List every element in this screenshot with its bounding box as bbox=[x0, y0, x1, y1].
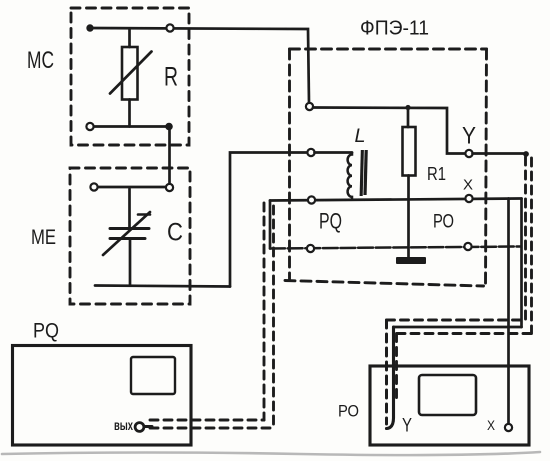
terminal wire3 left bbox=[307, 245, 314, 252]
terminal Y bbox=[465, 150, 472, 157]
svg-text:РQ: РQ bbox=[33, 320, 59, 343]
svg-text:R: R bbox=[164, 62, 178, 92]
resistor R bbox=[128, 29, 131, 48]
coax dashed horizontal upper bbox=[387, 319, 526, 322]
wire МЕ top bbox=[98, 186, 167, 189]
вых cable dashed lower bbox=[150, 427, 274, 430]
capacitor C bbox=[128, 189, 131, 228]
coax dashed horizontal lower bbox=[397, 332, 532, 335]
terminal МС bottom left bbox=[86, 123, 93, 130]
terminal on МС top wire bbox=[166, 24, 173, 31]
terminal МЕ top right bbox=[166, 184, 173, 191]
wire C to L riser bbox=[230, 153, 307, 287]
wire cable core horizontal bbox=[394, 326, 522, 329]
svg-text:ФПЭ-11: ФПЭ-11 bbox=[360, 18, 429, 40]
wire МС-МЕ connector bbox=[168, 127, 171, 184]
junction dot МС bottom right bbox=[165, 123, 173, 131]
svg-text:РQ: РQ bbox=[319, 209, 342, 234]
wire X to oscilloscope bbox=[507, 199, 510, 424]
inductor L coil bbox=[315, 151, 353, 154]
вых cable dashed riser left bbox=[263, 203, 266, 420]
РQ screen bbox=[131, 357, 175, 394]
inductor core bbox=[360, 150, 364, 196]
svg-text:Y: Y bbox=[462, 123, 476, 150]
generator РQ box bbox=[13, 346, 192, 446]
junction dot top-left bbox=[86, 24, 93, 31]
oscilloscope РО box bbox=[370, 366, 529, 445]
svg-text:РО: РО bbox=[338, 402, 359, 421]
svg-text:R1: R1 bbox=[427, 164, 446, 184]
terminal ФПЭ input top bbox=[306, 103, 313, 110]
svg-text:вых: вых bbox=[114, 418, 133, 433]
dot Y wire end bbox=[523, 151, 529, 157]
box МС bbox=[71, 8, 189, 145]
resistor R1 bbox=[407, 108, 410, 128]
wire2-wire3 link bbox=[269, 201, 272, 249]
wire cable core down with hook bbox=[387, 327, 394, 429]
coax cable dashed outer bbox=[524, 157, 527, 320]
scan smudge bottom edge bbox=[2, 452, 540, 455]
terminal wire3 right bbox=[464, 243, 471, 250]
terminal МЕ top left bbox=[90, 183, 97, 190]
connector вых bbox=[135, 423, 144, 432]
coax dashed drop left bbox=[385, 320, 388, 424]
wire МС bottom bbox=[93, 125, 169, 128]
вых cable dashed upper bbox=[150, 419, 264, 422]
ground bbox=[396, 257, 426, 264]
wire Y out bbox=[473, 152, 527, 155]
svg-text:Y: Y bbox=[402, 415, 412, 437]
coax dashed drop right bbox=[395, 334, 398, 403]
coax cable dashed inner bbox=[530, 158, 533, 334]
wire input to R1 and Y corner bbox=[313, 108, 466, 154]
svg-text:X: X bbox=[463, 177, 473, 194]
вых cable dashed riser right bbox=[272, 206, 275, 428]
wire МС top bus to ФПЭ-11 bbox=[90, 28, 309, 103]
svg-text:МЕ: МЕ bbox=[31, 226, 56, 249]
svg-text:РО: РО bbox=[433, 212, 454, 233]
РО screen bbox=[419, 375, 476, 415]
wire3 bbox=[270, 247, 521, 249]
svg-text:МС: МС bbox=[27, 47, 54, 74]
terminal wire2 left bbox=[308, 196, 315, 203]
wire C bottom bbox=[95, 286, 230, 287]
wire right bus down bbox=[520, 199, 523, 328]
terminal X РО bbox=[505, 424, 512, 431]
svg-text:С: С bbox=[167, 219, 183, 247]
terminal X bbox=[465, 195, 472, 202]
junction dot R1 top bbox=[405, 105, 410, 110]
svg-text:L: L bbox=[355, 126, 366, 147]
box МЕ bbox=[70, 168, 190, 304]
box ФПЭ-11 bbox=[290, 48, 487, 51]
wire2 X bus bbox=[270, 199, 522, 201]
terminal L top bbox=[307, 149, 314, 156]
svg-text:X: X bbox=[487, 417, 496, 433]
